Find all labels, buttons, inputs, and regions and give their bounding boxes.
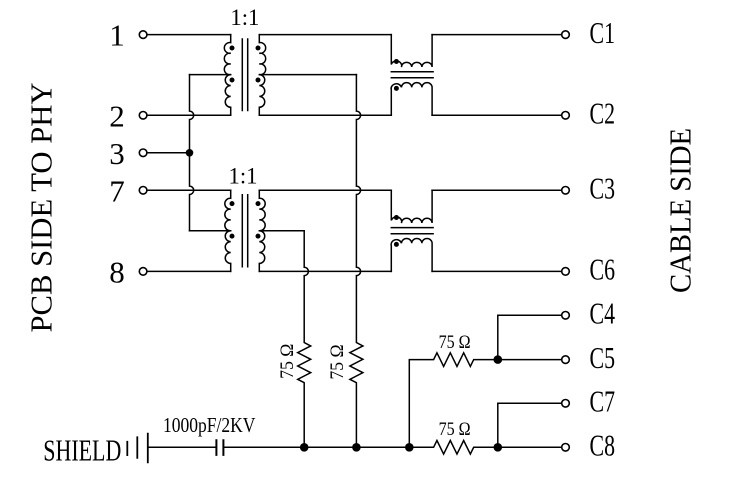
wire T2 primary center tap [190, 230, 231, 232]
wire T1 secondary bottom to choke1 [259, 114, 391, 116]
svg-text:PCB SIDE TO PHY: PCB SIDE TO PHY [24, 83, 59, 333]
transformer T2 secondary dot bottom [256, 234, 261, 239]
terminal C2 [562, 112, 570, 120]
transformer T2 core [242, 195, 247, 267]
svg-text:2: 2 [109, 98, 125, 133]
pin 7 terminal [139, 187, 147, 195]
transformer T1 primary dot top [230, 46, 235, 51]
wire pin8 to T2 [147, 270, 230, 272]
transformer T1 secondary dot bottom [256, 78, 261, 83]
svg-text:1:1: 1:1 [230, 5, 259, 30]
svg-text:75 Ω: 75 Ω [439, 332, 471, 353]
wire T1 secondary top to choke1 [259, 34, 391, 36]
transformer T2 primary dot bottom [230, 234, 235, 239]
terminal C7 [562, 400, 570, 408]
transformer T1 secondary winding [259, 35, 265, 116]
resistor R3 75ohm horizontal with leads to C5 [409, 353, 561, 447]
wire pin3 to center-tap bus [147, 152, 189, 154]
wire pin2 to T1 [147, 114, 230, 116]
transformer T1 core [242, 39, 247, 111]
resistor R1 75ohm vertical (net from T2 tap) with hop [298, 231, 311, 448]
pin 8 terminal [139, 268, 147, 276]
terminal C3 [562, 187, 570, 195]
wire C7 to node [498, 403, 562, 447]
wire T1 primary center tap [190, 74, 231, 76]
common-mode choke L1 core [391, 72, 433, 78]
svg-text:75 Ω: 75 Ω [277, 344, 298, 379]
svg-text:SHIELD: SHIELD [43, 433, 121, 468]
svg-text:3: 3 [109, 136, 125, 171]
svg-text:C6: C6 [590, 252, 616, 287]
transformer T2 primary dot top [230, 201, 235, 206]
common-mode choke L2 core [391, 228, 433, 234]
wire center-tap bus vertical with hops [190, 75, 194, 231]
junction bus / C7 [494, 443, 503, 452]
wire T1 secondary center tap [259, 74, 356, 76]
terminal C6 [562, 268, 570, 276]
wire T2 secondary bottom to choke2 [259, 270, 391, 272]
terminal C5 [562, 356, 570, 364]
common-mode choke L1 bottom winding [391, 83, 432, 116]
transformer T2 primary winding [225, 190, 231, 271]
svg-text:C1: C1 [590, 15, 616, 50]
junction bus / R1 [300, 443, 309, 452]
transformer T2 secondary dot top [256, 201, 261, 206]
terminal C1 [562, 31, 570, 39]
junction bus / R2 [352, 443, 361, 452]
svg-text:7: 7 [109, 173, 125, 208]
capacitor 1000pF/2KV [216, 440, 223, 455]
pin 2 terminal [139, 112, 147, 120]
wire pin7 to T2 [147, 189, 230, 191]
junction R3 / C4 / C5 [494, 355, 503, 364]
svg-text:C4: C4 [590, 296, 616, 331]
svg-text:8: 8 [109, 254, 125, 289]
svg-text:C8: C8 [590, 428, 616, 463]
svg-text:C2: C2 [590, 96, 616, 131]
transformer T2 secondary winding [259, 190, 265, 271]
common-mode choke L1 top winding [391, 35, 432, 67]
ground bus with resistor R4 75ohm [223, 441, 561, 455]
choke L1 dot top [394, 59, 399, 64]
svg-text:75 Ω: 75 Ω [327, 345, 348, 380]
terminal C8 [562, 444, 570, 452]
wire choke2 to C3 [432, 189, 561, 191]
pin 1 terminal [139, 31, 147, 39]
svg-text:1:1: 1:1 [229, 164, 258, 189]
wire shield to capacitor [148, 446, 217, 448]
common-mode choke L2 top winding [391, 190, 432, 223]
wire T2 secondary center tap [259, 230, 304, 232]
svg-text:C7: C7 [590, 384, 616, 419]
pin 3 terminal [139, 149, 147, 157]
svg-text:1: 1 [109, 18, 125, 53]
svg-text:75 Ω: 75 Ω [439, 419, 471, 440]
wire choke1 to C2 [432, 114, 561, 116]
choke L1 dot bottom [394, 86, 399, 91]
svg-text:CABLE SIDE: CABLE SIDE [663, 128, 698, 293]
svg-text:1000pF/2KV: 1000pF/2KV [163, 413, 256, 437]
transformer T1 primary dot bottom [230, 78, 235, 83]
transformer T1 secondary dot top [256, 46, 261, 51]
choke L2 dot bottom [394, 242, 399, 247]
wire T2 secondary top to choke2 [259, 189, 391, 191]
common-mode choke L2 bottom winding [391, 239, 432, 272]
shield terminal symbol [127, 434, 148, 463]
resistor R2 75ohm vertical (net from T1 tap) with hops [350, 75, 363, 448]
svg-text:C5: C5 [590, 340, 616, 375]
transformer T1 primary winding [224, 35, 230, 116]
junction pin3 / center-tap bus [186, 149, 194, 157]
junction bus / R3 lead [405, 443, 414, 452]
choke L2 dot top [394, 215, 399, 220]
wire C4 to node [498, 315, 562, 359]
wire choke1 to C1 [432, 34, 561, 36]
terminal C4 [562, 312, 570, 320]
wire choke2 to C6 [432, 270, 561, 272]
wire pin1 to T1 [147, 34, 230, 36]
svg-text:C3: C3 [590, 171, 616, 206]
